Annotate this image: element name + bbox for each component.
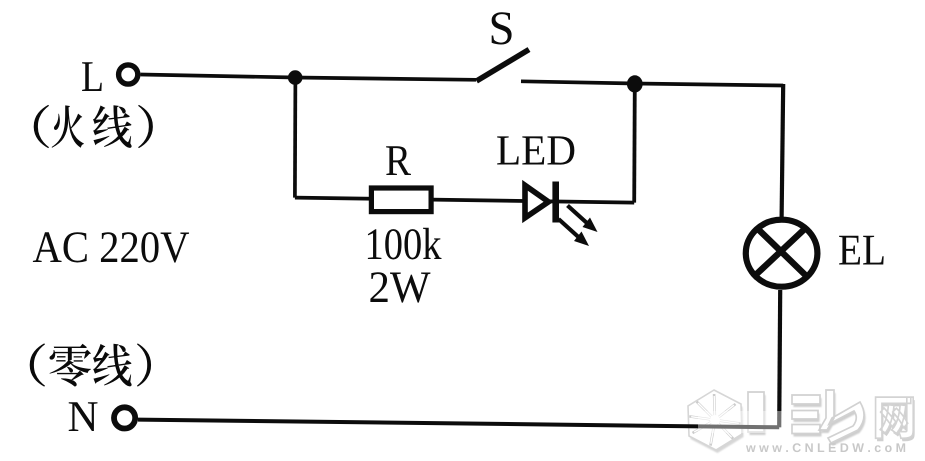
LED arrow 2	[559, 219, 590, 246]
lamp EL cross stroke 1	[756, 227, 809, 278]
wire: branch through R and LED to below junction B	[295, 198, 634, 203]
label (huoxian) parenthesis close	[138, 105, 153, 148]
wire: junction B to top-right corner	[635, 84, 783, 86]
label AC 220V	[33, 232, 189, 263]
label LED	[497, 136, 574, 164]
wire: top-right corner down to lamp top	[782, 84, 784, 218]
terminal L (open circle)	[119, 65, 138, 84]
wire: L terminal to junction A	[141, 75, 296, 78]
watermark letter D stylized	[819, 390, 866, 446]
junction B (dot)	[627, 75, 643, 92]
watermark wire dimming overlay	[698, 411, 790, 433]
label (lingxian) parenthesis open	[30, 343, 45, 386]
lamp EL circle	[746, 220, 818, 287]
resistor R	[371, 188, 431, 212]
label xian char	[93, 105, 132, 148]
label R	[386, 146, 411, 175]
label huo char	[52, 105, 84, 147]
label S	[492, 12, 512, 44]
wire: junction A down to branch	[293, 78, 297, 198]
label (huoxian) live-wire parenthesis open	[34, 105, 49, 148]
label N	[69, 402, 98, 431]
wire: N terminal to bottom-right corner	[138, 420, 779, 428]
watermark letter L	[748, 392, 766, 435]
LED arrow 1	[568, 206, 598, 233]
terminal N (open circle)	[114, 407, 135, 428]
label xian2 char	[93, 344, 132, 387]
LED anode triangle	[525, 185, 549, 218]
junction A (dot)	[288, 70, 303, 85]
label EL	[839, 236, 884, 265]
wire: lamp bottom down to bottom-right corner	[779, 290, 780, 427]
lamp EL cross stroke 2	[753, 228, 806, 277]
wire: junction A to switch left contact	[295, 78, 476, 80]
wire: switch right contact to junction B	[521, 81, 635, 83]
watermark hexagon icon with starburst	[688, 390, 744, 453]
watermark caption www.cnledw.com	[746, 443, 905, 452]
label 2W	[370, 272, 430, 302]
label 100k	[368, 228, 442, 260]
watermark letter E	[792, 395, 822, 437]
label ling char	[49, 344, 91, 387]
label L	[82, 62, 102, 91]
switch S blade	[477, 50, 530, 82]
LED cathode bar	[552, 182, 559, 223]
label (lingxian) parenthesis close	[137, 343, 151, 386]
wire: junction B down to branch	[632, 84, 636, 203]
watermark wang char	[876, 397, 915, 441]
